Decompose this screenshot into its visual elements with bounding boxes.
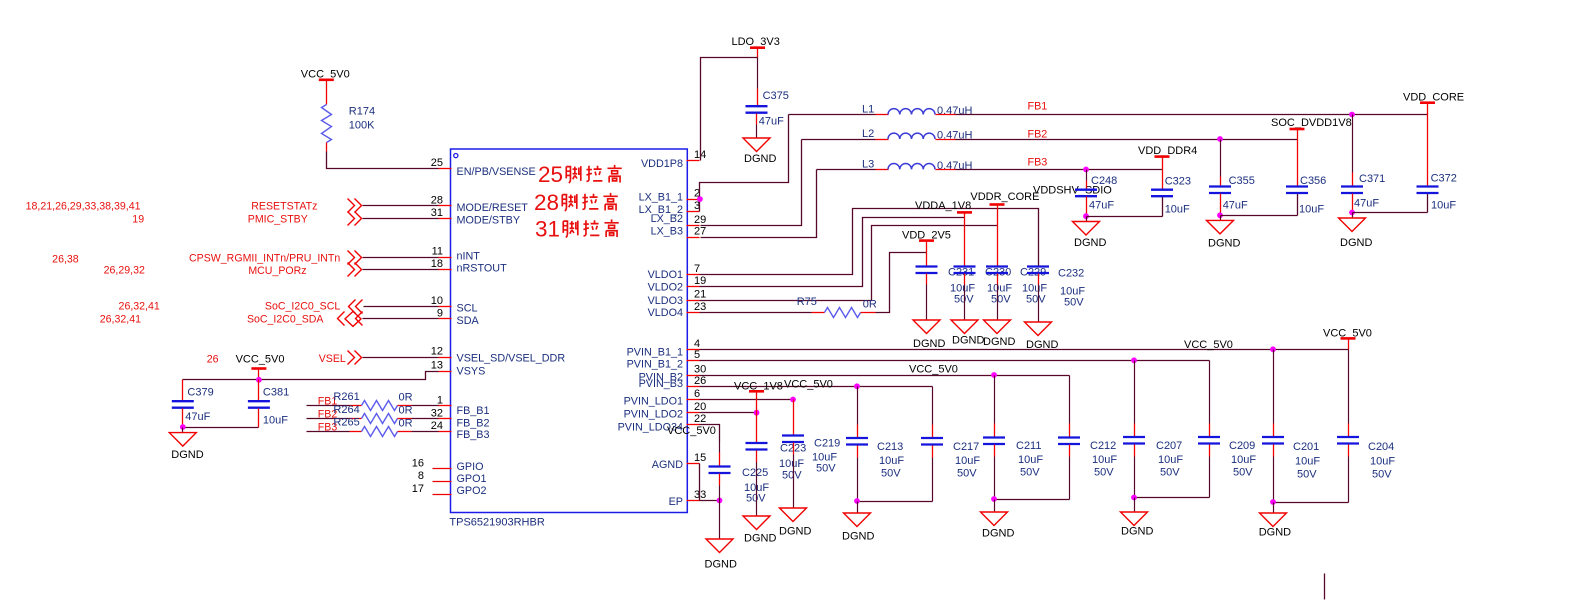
capacitor C201 10uF 50V: [1262, 350, 1320, 503]
svg-text:C381: C381: [263, 386, 289, 398]
svg-text:50V: 50V: [1160, 467, 1180, 479]
svg-text:50V: 50V: [1026, 294, 1046, 306]
wire: [1274, 502, 1349, 504]
port RESETSTATz: [251, 199, 361, 213]
svg-text:11: 11: [432, 246, 443, 258]
wire: [1348, 339, 1350, 350]
svg-text:50V: 50V: [1233, 467, 1253, 479]
wire: [700, 349, 1349, 351]
wire: [363, 218, 439, 220]
wire: [858, 501, 933, 503]
svg-text:VCC_5V0: VCC_5V0: [784, 379, 833, 391]
svg-text:VCC_5V0: VCC_5V0: [909, 364, 958, 376]
svg-text:26,32,41: 26,32,41: [100, 313, 141, 325]
resistor R265 0R (net FB3): [307, 417, 439, 437]
svg-text:29: 29: [694, 214, 706, 226]
svg-text:C217: C217: [953, 441, 979, 453]
ground DGND (C229): [983, 320, 1015, 348]
pin 28 MODE/RESET: [431, 194, 529, 214]
svg-text:DGND: DGND: [983, 336, 1015, 348]
svg-text:7: 7: [694, 263, 700, 275]
svg-text:10uF: 10uF: [1092, 454, 1117, 466]
junction: [991, 496, 997, 502]
wire: [700, 425, 720, 443]
annotation 31 pin pull-high: [535, 217, 619, 242]
ground DGND (C201/C204): [1259, 503, 1291, 539]
port VSEL: [319, 351, 362, 366]
ground DGND (C379): [169, 428, 203, 462]
wire: [1162, 157, 1164, 189]
junction: [991, 372, 997, 378]
port SoC_I2C0_SDA: [247, 311, 363, 326]
pin 27 LX_B3: [651, 226, 707, 238]
port CPSW_RGMII_INTn/PRU_INTn: [189, 251, 361, 265]
svg-text:C225: C225: [742, 467, 768, 479]
svg-text:C204: C204: [1368, 441, 1394, 453]
junction: [754, 410, 760, 416]
svg-text:DGND: DGND: [952, 335, 984, 347]
svg-text:0R: 0R: [863, 298, 877, 310]
wire: [700, 399, 794, 401]
port SoC_I2C0_SCL: [265, 300, 363, 314]
resistor R174: [322, 105, 376, 143]
svg-text:10uF: 10uF: [1299, 203, 1324, 215]
capacitor C379: [172, 380, 214, 428]
svg-text:9: 9: [437, 307, 443, 319]
svg-text:50V: 50V: [991, 294, 1011, 306]
pin 3 LX_B1_2: [639, 200, 701, 216]
capacitor C229 10uF 50V: [986, 267, 1047, 321]
svg-text:17: 17: [412, 483, 424, 495]
svg-text:C232: C232: [1058, 268, 1084, 280]
junction: [1270, 499, 1276, 505]
annotation 25 pin pull-high: [538, 162, 622, 187]
svg-text:50V: 50V: [816, 463, 836, 475]
svg-text:GPO2: GPO2: [457, 485, 487, 497]
wire: [363, 357, 439, 359]
svg-text:20: 20: [694, 401, 706, 413]
svg-text:10uF: 10uF: [1370, 456, 1395, 468]
svg-text:10: 10: [431, 295, 443, 307]
svg-text:VSEL: VSEL: [319, 353, 346, 365]
svg-text:0R: 0R: [399, 392, 413, 404]
power VDD_DDR4: [1138, 145, 1197, 157]
svg-text:VDDA_1V8: VDDA_1V8: [915, 200, 971, 212]
svg-text:SOC_DVDD1V8: SOC_DVDD1V8: [1271, 117, 1352, 129]
svg-text:10uF: 10uF: [1165, 203, 1190, 215]
svg-text:100K: 100K: [349, 120, 375, 132]
pin 20 PVIN_LDO2: [624, 401, 707, 420]
junction: [1083, 167, 1089, 173]
svg-text:12: 12: [431, 346, 443, 358]
U1 value label TPS6521903RHBR: [449, 516, 544, 528]
svg-text:10uF: 10uF: [955, 455, 980, 467]
wire: [1087, 197, 1163, 217]
svg-text:C201: C201: [1293, 441, 1319, 453]
wire: [700, 386, 933, 388]
ground DGND (C223): [743, 516, 776, 545]
capacitor C355 47uF: [1209, 140, 1255, 216]
pin 30 PVIN_B2: [639, 364, 707, 384]
svg-text:19: 19: [132, 214, 144, 226]
capacitor C230 10uF 50V: [954, 267, 1013, 321]
svg-text:18: 18: [431, 258, 443, 270]
wire: [363, 205, 439, 207]
junction: [854, 498, 860, 504]
net label VCC_5V0 (row30): [909, 364, 958, 376]
pin 14 VDD1P8: [641, 149, 706, 170]
power VCC_5V0 (VSYS): [236, 353, 285, 368]
wire: [363, 257, 439, 259]
inductor L2 0.47uH: [862, 128, 973, 142]
svg-text:FB2: FB2: [1028, 129, 1048, 141]
svg-text:28: 28: [534, 190, 559, 215]
pin 29 LX_B2: [651, 213, 707, 226]
wire: [326, 80, 328, 105]
wire: [1221, 194, 1298, 216]
pin 16 GPIO: [412, 457, 484, 473]
svg-text:DGND: DGND: [779, 526, 811, 538]
svg-text:50V: 50V: [1297, 468, 1317, 480]
svg-text:21: 21: [694, 289, 706, 301]
svg-text:18,21,26,29,33,38,39,41: 18,21,26,29,33,38,39,41: [26, 201, 141, 213]
svg-text:C372: C372: [1431, 173, 1457, 185]
svg-text:13: 13: [431, 360, 443, 372]
annotation 28 pin pull-high: [534, 190, 618, 215]
junction: [697, 196, 703, 202]
pin 19 VLDO2: [648, 275, 707, 294]
ground DGND (C211/C212): [981, 500, 1015, 540]
svg-text:28: 28: [431, 194, 443, 206]
svg-text:50V: 50V: [957, 468, 977, 480]
IC U1 TPS6521903RHBR body: [451, 149, 688, 513]
svg-text:0R: 0R: [399, 405, 413, 417]
svg-text:DGND: DGND: [1121, 526, 1153, 538]
wire: [701, 170, 817, 238]
pin 5 PVIN_B1_2: [627, 349, 701, 371]
power VDDA_1V8: [915, 200, 972, 212]
capacitor C204 10uF 50V: [1337, 350, 1395, 503]
svg-text:PVIN_LDO1: PVIN_LDO1: [624, 396, 683, 408]
svg-text:L2: L2: [862, 128, 874, 140]
svg-text:SDA: SDA: [457, 315, 480, 327]
wire: [756, 392, 758, 413]
pin 24 FB_B3: [431, 420, 490, 441]
svg-text:C323: C323: [1165, 176, 1191, 188]
wire: [363, 269, 439, 271]
wire: [926, 241, 928, 266]
svg-text:VLDO4: VLDO4: [648, 307, 683, 319]
pin 4 PVIN_B1_1: [627, 338, 701, 359]
svg-text:VCC_5V0: VCC_5V0: [1184, 339, 1233, 351]
svg-text:31: 31: [535, 217, 560, 242]
svg-text:GPIO: GPIO: [457, 461, 484, 473]
wire: [876, 253, 927, 313]
wire: [817, 169, 889, 171]
svg-text:VDDR_CORE: VDDR_CORE: [970, 191, 1039, 203]
svg-text:SoC_I2C0_SCL: SoC_I2C0_SCL: [265, 301, 340, 313]
junction: [854, 383, 860, 389]
svg-text:0R: 0R: [399, 417, 413, 429]
junction: [256, 377, 262, 383]
svg-text:LX_B3: LX_B3: [651, 226, 683, 238]
wire: [258, 369, 260, 380]
wire: [995, 499, 1070, 501]
power SOC_DVDD1V8: [1271, 117, 1352, 129]
svg-text:MCU_PORz: MCU_PORz: [248, 265, 306, 277]
wire: [700, 218, 965, 287]
svg-text:10uF: 10uF: [1158, 454, 1183, 466]
ground DGND (C375): [743, 138, 776, 165]
svg-text:TPS6521903RHBR: TPS6521903RHBR: [449, 516, 544, 528]
capacitor C212 10uF 50V: [1058, 376, 1117, 500]
junction: [1131, 495, 1137, 501]
capacitor C323 10uF: [1151, 176, 1191, 216]
capacitor C223 10uF 50V: [746, 413, 807, 517]
net label FB1: [1028, 101, 1048, 113]
pin 25 EN/PB/VSENSE: [431, 157, 536, 178]
pin 9 SDA: [437, 307, 480, 327]
svg-text:DGND: DGND: [744, 153, 776, 165]
wire: [964, 213, 966, 266]
svg-text:VCC_5V0: VCC_5V0: [667, 425, 716, 437]
svg-text:50V: 50V: [1094, 467, 1114, 479]
pin 13 VSYS: [431, 360, 486, 378]
wire: [183, 427, 259, 429]
svg-text:27: 27: [694, 226, 706, 238]
port MCU_PORz: [248, 263, 361, 278]
wire: [364, 306, 439, 308]
wire: [700, 226, 998, 301]
pin 33 EP: [669, 489, 707, 508]
svg-text:C211: C211: [1016, 440, 1041, 452]
svg-text:R261: R261: [333, 391, 359, 403]
wire: [701, 140, 802, 226]
junction: [180, 424, 186, 430]
svg-text:DGND: DGND: [744, 533, 776, 545]
power VDD_2V5: [902, 230, 951, 242]
svg-text:47uF: 47uF: [1223, 199, 1248, 211]
svg-text:VLDO3: VLDO3: [648, 295, 683, 307]
wire: [1135, 497, 1210, 499]
svg-text:15: 15: [694, 452, 706, 464]
svg-text:25: 25: [431, 157, 443, 169]
svg-text:50V: 50V: [881, 468, 901, 480]
resistor R261 0R (net FB1): [307, 391, 439, 411]
power VDD_CORE: [1403, 92, 1464, 104]
power LDO_3V3: [732, 36, 780, 48]
resistor R75 0R: [797, 296, 877, 318]
pin 18 nRSTOUT: [431, 258, 507, 274]
svg-text:nRSTOUT: nRSTOUT: [457, 263, 508, 275]
svg-text:C212: C212: [1090, 440, 1116, 452]
svg-text:10uF: 10uF: [1231, 454, 1256, 466]
capacitor C371 47uF: [1341, 115, 1385, 213]
svg-text:47uF: 47uF: [185, 411, 210, 423]
svg-text:0.47uH: 0.47uH: [937, 160, 973, 172]
ground DGND (C248/C323): [1073, 217, 1107, 250]
svg-text:47uF: 47uF: [759, 116, 784, 128]
svg-text:31: 31: [431, 207, 443, 219]
svg-text:PVIN_LDO2: PVIN_LDO2: [624, 409, 683, 421]
svg-text:26,38: 26,38: [52, 254, 79, 266]
svg-text:R174: R174: [349, 106, 375, 118]
svg-text:VLDO1: VLDO1: [648, 269, 683, 281]
pin 21 VLDO3: [648, 289, 707, 307]
svg-text:LX_B2: LX_B2: [651, 213, 683, 225]
svg-text:MODE/RESET: MODE/RESET: [457, 202, 529, 214]
svg-text:19: 19: [694, 275, 706, 287]
svg-text:50V: 50V: [1064, 297, 1084, 309]
pin 6 PVIN_LDO1: [624, 388, 701, 408]
wire: [757, 58, 759, 106]
resistor R264 0R (net FB2): [307, 404, 439, 424]
svg-text:25: 25: [538, 162, 563, 187]
svg-text:FB_B1: FB_B1: [457, 405, 490, 417]
capacitor C356 10uF: [1286, 175, 1326, 215]
port PMIC_STBY: [248, 212, 362, 226]
svg-text:DGND: DGND: [1208, 238, 1240, 250]
net label FB2: [1028, 129, 1048, 141]
junction: [790, 397, 796, 403]
capacitor C207 10uF 50V: [1123, 361, 1183, 498]
svg-text:23: 23: [694, 301, 706, 313]
capacitor C225 10uF 50V: [709, 443, 770, 505]
power VCC_5V0 (R174): [301, 68, 350, 80]
ground DGND (EP/C225): [705, 501, 737, 571]
svg-text:EP: EP: [669, 496, 683, 508]
svg-text:10uF: 10uF: [1295, 456, 1320, 468]
wire: [1297, 130, 1299, 186]
svg-text:DGND: DGND: [171, 449, 203, 461]
ground DGND (C371/C372): [1339, 213, 1373, 249]
wire: [700, 375, 1070, 377]
svg-text:FB_B2: FB_B2: [457, 418, 490, 430]
wire: [700, 312, 812, 314]
net label FB3: [1028, 157, 1048, 169]
svg-text:DGND: DGND: [705, 559, 737, 571]
pin 8 GPO1: [418, 470, 487, 485]
svg-text:50V: 50V: [1372, 468, 1392, 480]
ground DGND (C231): [913, 320, 945, 350]
svg-text:VDD1P8: VDD1P8: [641, 158, 683, 170]
svg-text:nINT: nINT: [457, 251, 481, 263]
svg-text:SCL: SCL: [457, 303, 478, 315]
svg-text:PMIC_STBY: PMIC_STBY: [248, 214, 308, 226]
capacitor C381: [248, 380, 289, 428]
wire: [789, 114, 889, 116]
wire: [700, 500, 720, 502]
wire: [700, 209, 1039, 275]
pin 2 LX_B1_1: [639, 188, 701, 204]
svg-text:LX_B1_1: LX_B1_1: [639, 192, 683, 204]
ground DGND (C213/C217): [842, 502, 874, 543]
wire: [700, 360, 1210, 362]
svg-text:47uF: 47uF: [1354, 197, 1379, 209]
pin 11 nINT: [432, 246, 481, 263]
junction: [1349, 112, 1355, 118]
svg-text:SoC_I2C0_SDA: SoC_I2C0_SDA: [247, 314, 324, 326]
svg-text:VLDO2: VLDO2: [648, 282, 683, 294]
svg-text:DGND: DGND: [1340, 237, 1372, 249]
net label VDDSHV_SDIO: [1033, 185, 1112, 197]
power VDDR_CORE: [970, 191, 1039, 205]
pin 23 VLDO4: [648, 301, 707, 319]
svg-text:C209: C209: [1229, 440, 1255, 452]
wire: [802, 139, 889, 141]
ground DGND (C219): [779, 508, 811, 538]
net label refs: [52, 254, 145, 277]
svg-text:CPSW_RGMII_INTn/PRU_INTn: CPSW_RGMII_INTn/PRU_INTn: [189, 253, 340, 265]
svg-text:PVIN_B1_1: PVIN_B1_1: [627, 347, 683, 359]
power VCC_5V0 (row4): [1323, 327, 1372, 339]
junction: [1083, 213, 1089, 219]
svg-text:6: 6: [694, 388, 700, 400]
svg-text:16: 16: [412, 457, 424, 469]
pin 15 AGND: [652, 452, 706, 471]
svg-text:FB_B3: FB_B3: [457, 429, 490, 441]
svg-text:26,32,41: 26,32,41: [119, 300, 160, 312]
svg-text:R264: R264: [333, 404, 359, 416]
svg-text:R265: R265: [333, 417, 359, 429]
capacitor C217 10uF 50V: [921, 387, 980, 502]
capacitor C211 10uF 50V: [983, 376, 1043, 500]
svg-text:VCC_5V0: VCC_5V0: [236, 353, 285, 365]
svg-text:0.47uH: 0.47uH: [937, 105, 973, 117]
svg-text:GPO1: GPO1: [457, 473, 487, 485]
junction: [1217, 212, 1223, 218]
svg-text:26: 26: [694, 375, 706, 387]
svg-text:C355: C355: [1229, 175, 1255, 187]
svg-text:DGND: DGND: [913, 338, 945, 350]
net label VCC_5V0 (row5): [1184, 339, 1233, 351]
svg-text:47uF: 47uF: [1089, 199, 1114, 211]
svg-text:C356: C356: [1300, 175, 1326, 187]
pin 26 PVIN_B3: [639, 375, 707, 390]
svg-text:EN/PB/VSENSE: EN/PB/VSENSE: [457, 166, 536, 178]
junction: [1270, 346, 1276, 352]
svg-text:C248: C248: [1091, 175, 1117, 187]
junction: [717, 498, 723, 504]
svg-text:C207: C207: [1156, 440, 1182, 452]
pin 22 PVIN_LDO34: [618, 413, 707, 433]
ground DGND (C230): [951, 320, 984, 347]
svg-text:1: 1: [437, 394, 443, 406]
capacitor C248 47uF: [1075, 170, 1117, 217]
svg-text:30: 30: [694, 364, 706, 376]
svg-text:26: 26: [207, 354, 219, 366]
svg-text:VSEL_SD/VSEL_DDR: VSEL_SD/VSEL_DDR: [457, 353, 566, 365]
svg-text:VSYS: VSYS: [457, 366, 486, 378]
pin 10 SCL: [431, 295, 478, 315]
net label VCC_5V0 (pin22): [667, 425, 716, 437]
junction: [1217, 136, 1223, 142]
svg-text:C219: C219: [814, 437, 840, 449]
svg-text:C379: C379: [187, 386, 213, 398]
svg-text:24: 24: [431, 420, 443, 432]
pin 31 MODE/STBY: [431, 207, 520, 227]
capacitor C372 10uF: [1417, 173, 1457, 212]
svg-text:DGND: DGND: [1259, 527, 1291, 539]
svg-text:10uF: 10uF: [263, 415, 288, 427]
svg-text:C375: C375: [763, 90, 789, 102]
wire: [1427, 103, 1429, 186]
svg-text:10uF: 10uF: [1018, 454, 1043, 466]
wire: [363, 318, 439, 320]
junction: [1131, 357, 1137, 363]
wire: [936, 139, 1298, 141]
svg-text:DGND: DGND: [842, 530, 874, 542]
